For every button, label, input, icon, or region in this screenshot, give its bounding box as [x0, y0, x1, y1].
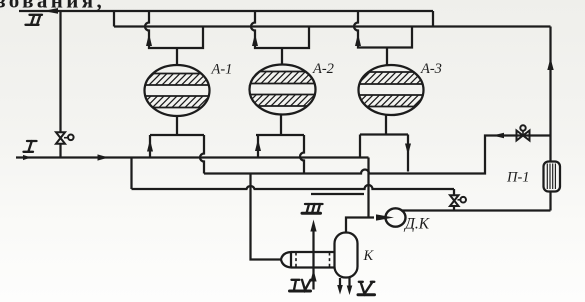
svg-text:А-3: А-3	[420, 61, 442, 77]
svg-text:А-1: А-1	[211, 62, 233, 78]
svg-text:А-2: А-2	[312, 61, 334, 77]
svg-text:Д.К: Д.К	[403, 216, 430, 233]
svg-text:П-1: П-1	[506, 170, 530, 186]
svg-text:К: К	[363, 248, 375, 264]
